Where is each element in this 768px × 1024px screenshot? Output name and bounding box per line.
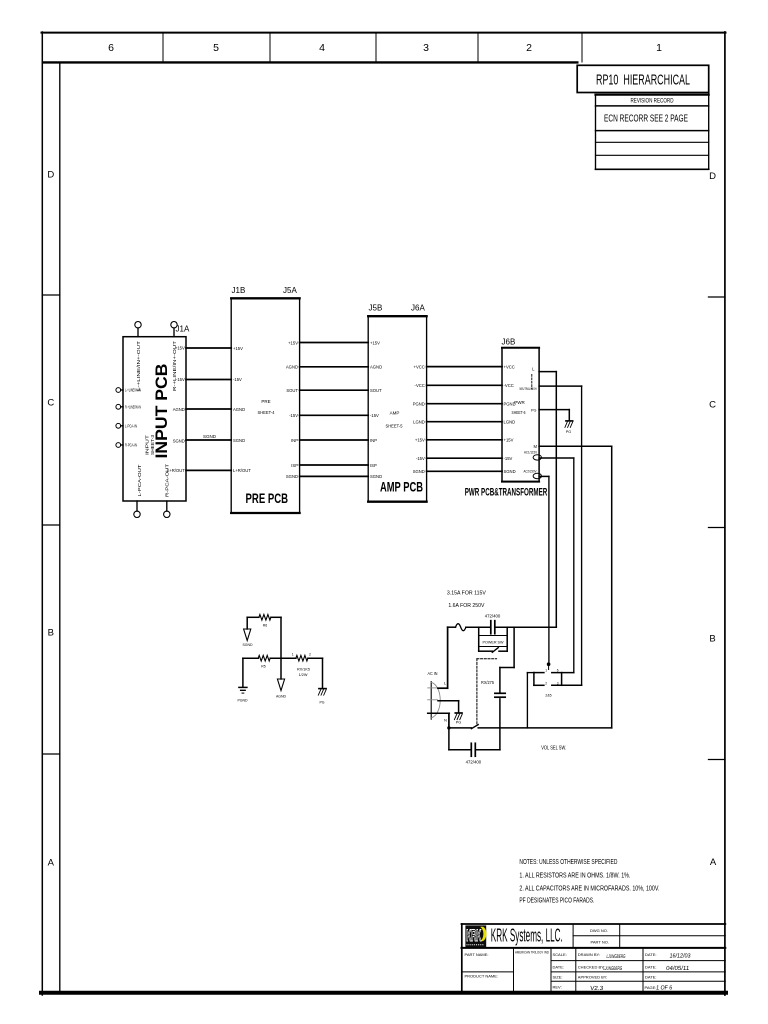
- svg-text:INP: INP: [370, 438, 377, 443]
- svg-text:L: L: [444, 681, 447, 686]
- svg-text:PG: PG: [566, 430, 572, 434]
- svg-text:R-PCA-IN: R-PCA-IN: [125, 443, 137, 448]
- svg-text:NEUTRAL/HIGH: NEUTRAL/HIGH: [520, 387, 537, 391]
- svg-text:1 OF 6: 1 OF 6: [656, 986, 673, 992]
- svg-text:DRAWN BY:: DRAWN BY:: [578, 952, 600, 957]
- svg-text:PGND: PGND: [413, 402, 425, 407]
- svg-text:ECN RECORR SEE 2 PAGE: ECN RECORR SEE 2 PAGE: [604, 114, 688, 125]
- svg-text:-15V: -15V: [233, 377, 242, 382]
- svg-text:SGND: SGND: [233, 438, 245, 443]
- svg-text:6: 6: [108, 42, 114, 54]
- svg-text:1: 1: [292, 652, 294, 656]
- svg-text:-VCC: -VCC: [415, 383, 425, 388]
- svg-text:AMP PCB: AMP PCB: [380, 479, 423, 495]
- svg-text:ISP: ISP: [291, 463, 298, 468]
- svg-text:AC1/115V: AC1/115V: [524, 450, 537, 454]
- svg-text:2: 2: [309, 652, 311, 656]
- svg-text:-15V: -15V: [416, 456, 425, 461]
- svg-text:+15V: +15V: [233, 346, 243, 351]
- svg-text:L-+LINE/IN-IN: L-+LINE/IN-IN: [125, 388, 141, 393]
- svg-text:R6: R6: [263, 624, 268, 628]
- svg-text:PRODUCT NAME:: PRODUCT NAME:: [465, 974, 498, 979]
- svg-text:+15V: +15V: [175, 346, 185, 351]
- svg-text:J5A: J5A: [283, 286, 297, 295]
- svg-text:PG: PG: [456, 721, 462, 725]
- svg-text:R5: R5: [261, 665, 266, 669]
- svg-text:J5B: J5B: [369, 304, 383, 313]
- svg-text:SHEET-3: SHEET-3: [150, 434, 155, 455]
- svg-text:LJUNGBERG: LJUNGBERG: [606, 954, 626, 960]
- svg-text:RX/275: RX/275: [481, 680, 495, 685]
- svg-text:SIZE:: SIZE:: [553, 975, 563, 980]
- svg-text:AGND: AGND: [233, 407, 245, 412]
- svg-text:3: 3: [557, 682, 559, 686]
- svg-text:POWER SW: POWER SW: [483, 639, 504, 644]
- svg-text:SOUT: SOUT: [286, 388, 298, 393]
- svg-text:APPROVED BY:: APPROVED BY:: [578, 975, 608, 980]
- svg-text:472/400: 472/400: [485, 613, 501, 618]
- svg-text:D: D: [709, 171, 716, 182]
- svg-text:PART NAME:: PART NAME:: [465, 952, 489, 957]
- svg-text:KRK: KRK: [466, 926, 481, 944]
- svg-text:ISP: ISP: [370, 463, 377, 468]
- svg-text:AGND: AGND: [370, 365, 382, 370]
- svg-text:SHEET-5: SHEET-5: [386, 424, 403, 429]
- svg-text:AC IN: AC IN: [428, 671, 438, 676]
- svg-text:PAGE:: PAGE:: [645, 985, 657, 990]
- svg-text:SHEET-6: SHEET-6: [512, 410, 526, 415]
- svg-text:R-+LINE/IN-IN: R-+LINE/IN-IN: [125, 404, 141, 409]
- svg-text:PRE: PRE: [261, 399, 270, 404]
- svg-text:1/2W: 1/2W: [299, 673, 308, 677]
- svg-text:VOL SEL SW.: VOL SEL SW.: [541, 746, 566, 752]
- svg-text:+VCC: +VCC: [504, 364, 515, 369]
- svg-text:AGND: AGND: [286, 365, 298, 370]
- svg-text:DATE:: DATE:: [645, 975, 656, 980]
- svg-text:SHEET-4: SHEET-4: [258, 410, 275, 415]
- svg-text:REVISION RECORD: REVISION RECORD: [631, 99, 675, 105]
- svg-text:N: N: [444, 718, 447, 723]
- svg-text:SGND: SGND: [504, 469, 516, 474]
- svg-text:LGND: LGND: [413, 420, 425, 425]
- svg-text:D: D: [47, 170, 54, 181]
- svg-text:PG: PG: [531, 408, 537, 412]
- svg-text:1: 1: [656, 42, 662, 54]
- svg-text:J1A: J1A: [176, 325, 190, 334]
- svg-text:2: 2: [526, 42, 532, 54]
- svg-text:1. ALL RESISTORS ARE IN OHMS.: 1. ALL RESISTORS ARE IN OHMS. 1/8W. 1%.: [519, 871, 630, 880]
- svg-text:PF DESIGNATES PICO FARADS.: PF DESIGNATES PICO FARADS.: [519, 895, 594, 904]
- svg-text:RP10 HIERARCHICAL: RP10 HIERARCHICAL: [596, 72, 690, 89]
- svg-text:DATE:: DATE:: [645, 964, 656, 969]
- svg-text:SCALE:: SCALE:: [553, 952, 567, 957]
- svg-text:SGND: SGND: [173, 438, 185, 443]
- svg-text:PGND: PGND: [237, 699, 248, 703]
- svg-text:A: A: [48, 858, 55, 869]
- svg-text:INPUT: INPUT: [144, 435, 149, 455]
- svg-text:M: M: [534, 444, 538, 449]
- svg-text:PWR PCB&TRANSFORMER: PWR PCB&TRANSFORMER: [465, 486, 548, 498]
- svg-text:DATE:: DATE:: [645, 952, 656, 957]
- svg-text:LJUNGBERG: LJUNGBERG: [603, 966, 623, 972]
- svg-text:+15V: +15V: [288, 340, 298, 345]
- svg-text:INP: INP: [291, 438, 298, 443]
- svg-text:SGND: SGND: [286, 474, 298, 479]
- svg-text:4: 4: [319, 42, 325, 54]
- svg-text:RX/1K5: RX/1K5: [297, 668, 310, 672]
- svg-text:AMP: AMP: [390, 411, 400, 416]
- svg-text:NOTES: UNLESS OTHERWISE SPECIF: NOTES: UNLESS OTHERWISE SPECIFIED: [519, 857, 617, 866]
- svg-text:3: 3: [423, 42, 429, 54]
- svg-text:5: 5: [213, 42, 219, 54]
- svg-text:6: 6: [557, 669, 559, 673]
- svg-text:16/12/03: 16/12/03: [669, 954, 691, 960]
- svg-text:J6A: J6A: [411, 304, 425, 313]
- svg-text:L-+LINE/IN+-OUT: L-+LINE/IN+-OUT: [136, 340, 141, 391]
- svg-text:SOUT: SOUT: [370, 388, 382, 393]
- svg-text:C: C: [709, 400, 716, 411]
- svg-text:A: A: [710, 857, 717, 868]
- svg-text:PWR: PWR: [514, 400, 525, 405]
- svg-text:+15V: +15V: [415, 438, 425, 443]
- svg-text:B: B: [48, 628, 54, 639]
- svg-text:L-PCA-IN: L-PCA-IN: [125, 423, 137, 428]
- svg-text:V2.3: V2.3: [590, 986, 604, 992]
- svg-text:AGND: AGND: [276, 695, 287, 699]
- svg-text:-15V: -15V: [176, 377, 185, 382]
- svg-text:LGND: LGND: [504, 420, 516, 425]
- svg-text:+15V: +15V: [370, 340, 380, 345]
- svg-text:2: 2: [545, 682, 547, 686]
- svg-text:3.15A FOR 115V: 3.15A FOR 115V: [447, 591, 486, 597]
- svg-text:-15V: -15V: [289, 413, 298, 418]
- svg-text:PART NO.: PART NO.: [591, 940, 609, 945]
- svg-text:L-PCA-OUT: L-PCA-OUT: [137, 464, 142, 497]
- svg-text:-VCC: -VCC: [504, 383, 514, 388]
- svg-text:2. ALL CAPACITORS ARE IN MICRO: 2. ALL CAPACITORS ARE IN MICROFARADS. 10…: [519, 883, 659, 892]
- svg-text:DATE:: DATE:: [553, 964, 564, 969]
- svg-text:PG: PG: [319, 701, 324, 705]
- svg-text:1.6A FOR 250V: 1.6A FOR 250V: [448, 603, 484, 609]
- svg-text:B: B: [709, 634, 715, 645]
- svg-text:L+R/OUT: L+R/OUT: [167, 468, 185, 473]
- svg-text:REV:: REV:: [553, 985, 562, 990]
- svg-text:AMERICAN TRILOGY IND: AMERICAN TRILOGY IND: [515, 951, 549, 955]
- svg-text:L: L: [532, 366, 535, 371]
- svg-text:CHECKED BY:: CHECKED BY:: [578, 964, 605, 969]
- svg-text:AGND: AGND: [173, 407, 185, 412]
- svg-text:-15V: -15V: [504, 456, 513, 461]
- svg-text:+VCC: +VCC: [414, 365, 425, 370]
- svg-text:J1B: J1B: [232, 286, 246, 295]
- svg-text:DWG NO.: DWG NO.: [590, 928, 608, 933]
- svg-text:04/05/11: 04/05/11: [666, 966, 690, 972]
- svg-text:SGND: SGND: [413, 469, 425, 474]
- svg-text:L+R/OUT: L+R/OUT: [233, 468, 251, 473]
- svg-text:SGND: SGND: [242, 643, 253, 647]
- svg-text:2&5: 2&5: [545, 694, 551, 698]
- svg-text:-15V: -15V: [370, 413, 379, 418]
- svg-text:AC2/230V: AC2/230V: [524, 470, 537, 474]
- svg-text:C: C: [47, 398, 54, 409]
- svg-text:J6B: J6B: [502, 337, 516, 346]
- svg-text:+15V: +15V: [504, 438, 514, 443]
- svg-text:KRK Systems, LLC.: KRK Systems, LLC.: [491, 925, 563, 945]
- svg-text:SGND: SGND: [203, 434, 217, 439]
- svg-text:1: 1: [545, 669, 547, 673]
- svg-text:472/400: 472/400: [466, 759, 482, 764]
- svg-text:PRE PCB: PRE PCB: [246, 490, 289, 506]
